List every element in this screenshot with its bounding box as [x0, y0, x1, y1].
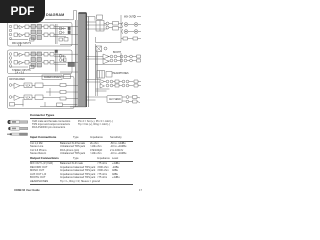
svg-text:VCA: VCA — [26, 96, 31, 99]
svg-text:MIX OUT 2: MIX OUT 2 — [124, 17, 136, 19]
svg-text:MIC/LINE INPUTS: MIC/LINE INPUTS — [12, 43, 31, 45]
svg-text:AUX SEND: AUX SEND — [109, 98, 121, 101]
svg-text:VCA: VCA — [26, 84, 31, 87]
svg-text:CROSSFADER: CROSSFADER — [9, 78, 25, 81]
svg-text:HEADPHONES: HEADPHONES — [113, 72, 130, 75]
svg-text:3,4 + 5,6: 3,4 + 5,6 — [15, 72, 25, 74]
svg-text:FADER ASSIGN: FADER ASSIGN — [44, 76, 61, 79]
svg-text:BOOTH: BOOTH — [113, 52, 122, 54]
